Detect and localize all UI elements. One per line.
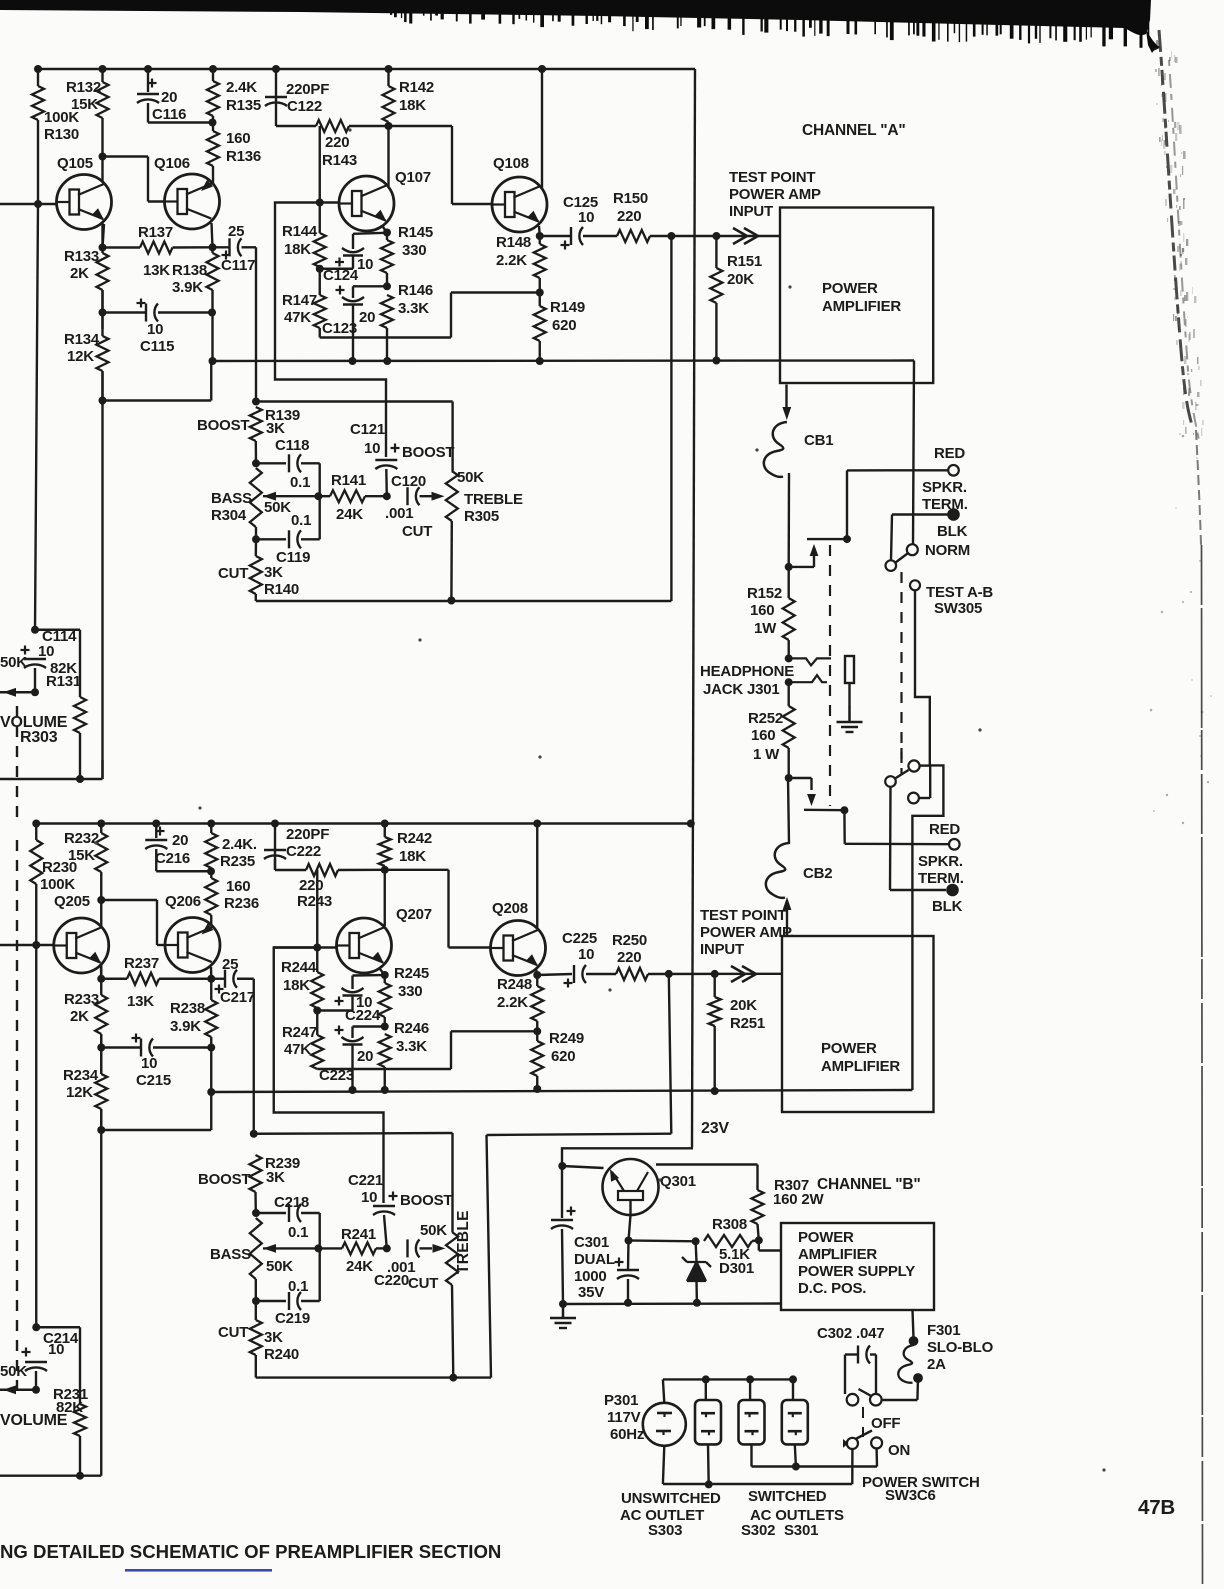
- svg-text:P301: P301: [604, 1392, 638, 1409]
- svg-text:S301: S301: [784, 1522, 818, 1539]
- svg-text:47K: 47K: [284, 1041, 311, 1058]
- svg-text:220PF: 220PF: [286, 81, 329, 98]
- svg-text:50K: 50K: [0, 1363, 27, 1380]
- svg-text:10: 10: [578, 209, 594, 226]
- svg-text:POWER: POWER: [822, 280, 878, 297]
- svg-text:CUT: CUT: [402, 523, 432, 540]
- svg-text:R135: R135: [226, 97, 261, 114]
- svg-text:R140: R140: [264, 581, 299, 598]
- svg-text:CUT: CUT: [218, 565, 248, 582]
- svg-text:0.1: 0.1: [288, 1278, 308, 1295]
- svg-text:10: 10: [364, 440, 380, 457]
- svg-text:330: 330: [398, 983, 422, 1000]
- svg-text:R130: R130: [44, 126, 79, 143]
- svg-text:13K: 13K: [143, 262, 170, 279]
- svg-text:S303: S303: [648, 1522, 682, 1539]
- svg-text:620: 620: [552, 317, 576, 334]
- svg-text:R146: R146: [398, 282, 433, 299]
- svg-text:SW3C6: SW3C6: [885, 1487, 936, 1504]
- svg-text:R236: R236: [224, 895, 259, 912]
- svg-text:220: 220: [325, 134, 349, 151]
- svg-text:R237: R237: [124, 955, 159, 972]
- svg-text:SWITCHED: SWITCHED: [748, 1488, 827, 1505]
- svg-text:Q108: Q108: [493, 155, 529, 172]
- svg-text:R232: R232: [64, 830, 99, 847]
- svg-text:Q205: Q205: [54, 893, 90, 910]
- svg-text:C216: C216: [155, 850, 190, 867]
- svg-text:F301: F301: [927, 1322, 960, 1339]
- svg-text:20: 20: [357, 1048, 373, 1065]
- svg-text:50K: 50K: [264, 499, 291, 516]
- svg-text:TERM.: TERM.: [918, 870, 964, 887]
- svg-text:CHANNEL "B": CHANNEL "B": [817, 1176, 921, 1193]
- svg-text:47K: 47K: [284, 309, 311, 326]
- svg-text:15K: 15K: [68, 847, 95, 864]
- svg-text:ON: ON: [888, 1442, 910, 1459]
- svg-text:D.C. POS.: D.C. POS.: [798, 1280, 866, 1297]
- svg-text:R136: R136: [226, 148, 261, 165]
- svg-text:TEST POINT: TEST POINT: [729, 169, 815, 186]
- svg-text:RED: RED: [929, 821, 960, 838]
- svg-text:160: 160: [751, 727, 775, 744]
- svg-text:R143: R143: [322, 152, 357, 169]
- svg-text:R251: R251: [730, 1015, 765, 1032]
- svg-text:18K: 18K: [399, 848, 426, 865]
- svg-text:C121: C121: [350, 421, 385, 438]
- svg-text:2.4K: 2.4K: [226, 79, 257, 96]
- svg-text:R233: R233: [64, 991, 99, 1008]
- svg-text:3K: 3K: [266, 420, 285, 437]
- svg-text:3K: 3K: [266, 1169, 285, 1186]
- svg-text:R134: R134: [64, 331, 100, 348]
- svg-text:160: 160: [226, 130, 250, 147]
- svg-text:Q207: Q207: [396, 906, 432, 923]
- svg-text:R147: R147: [282, 292, 317, 309]
- svg-text:12K: 12K: [67, 348, 94, 365]
- svg-text:R308: R308: [712, 1216, 747, 1233]
- svg-text:INPUT: INPUT: [729, 203, 773, 220]
- svg-text:POWER: POWER: [821, 1040, 877, 1057]
- svg-text:47B: 47B: [1138, 1496, 1175, 1519]
- svg-text:10: 10: [361, 1189, 377, 1206]
- svg-text:220: 220: [617, 949, 641, 966]
- svg-text:2A: 2A: [927, 1356, 946, 1373]
- svg-text:3.3K: 3.3K: [396, 1038, 427, 1055]
- svg-text:C217: C217: [220, 989, 255, 1006]
- svg-text:CUT: CUT: [408, 1275, 438, 1292]
- svg-text:R141: R141: [331, 472, 366, 489]
- svg-text:3.3K: 3.3K: [398, 300, 429, 317]
- svg-text:R245: R245: [394, 965, 429, 982]
- svg-text:R249: R249: [549, 1030, 584, 1047]
- svg-text:3.9K: 3.9K: [170, 1018, 201, 1035]
- svg-text:160 2W: 160 2W: [773, 1191, 825, 1208]
- svg-text:160: 160: [750, 602, 774, 619]
- svg-text:CB2: CB2: [803, 865, 832, 882]
- svg-text:330: 330: [402, 242, 426, 259]
- svg-text:3K: 3K: [264, 564, 283, 581]
- svg-text:R150: R150: [613, 190, 648, 207]
- svg-text:117V: 117V: [607, 1409, 641, 1426]
- svg-text:1000: 1000: [574, 1268, 607, 1285]
- svg-text:CB1: CB1: [804, 432, 833, 449]
- svg-text:R304: R304: [211, 507, 247, 524]
- svg-text:50K: 50K: [266, 1258, 293, 1275]
- svg-text:220PF: 220PF: [286, 826, 329, 843]
- svg-text:NG DETAILED SCHEMATIC OF PREAM: NG DETAILED SCHEMATIC OF PREAMPLIFIER SE…: [0, 1541, 501, 1562]
- svg-text:20: 20: [161, 89, 177, 106]
- svg-text:R144: R144: [282, 223, 318, 240]
- svg-text:CHANNEL "A": CHANNEL "A": [802, 122, 906, 139]
- svg-text:SLO-BLO: SLO-BLO: [927, 1339, 994, 1356]
- svg-text:R148: R148: [496, 234, 531, 251]
- svg-text:.001: .001: [387, 1259, 415, 1276]
- svg-text:HEADPHONE: HEADPHONE: [700, 663, 794, 680]
- svg-text:R235: R235: [220, 853, 255, 870]
- svg-text:R240: R240: [264, 1346, 299, 1363]
- svg-text:R243: R243: [297, 893, 332, 910]
- svg-text:3.9K: 3.9K: [172, 279, 203, 296]
- svg-text:13K: 13K: [127, 993, 154, 1010]
- svg-text:160: 160: [226, 878, 250, 895]
- svg-text:C120: C120: [391, 473, 426, 490]
- svg-text:R142: R142: [399, 79, 434, 96]
- svg-text:220: 220: [617, 208, 641, 225]
- svg-text:BLK: BLK: [932, 898, 963, 915]
- svg-text:AMPLIFIER: AMPLIFIER: [822, 298, 901, 315]
- svg-text:R250: R250: [612, 932, 647, 949]
- svg-text:220: 220: [299, 877, 323, 894]
- svg-text:2.4K.: 2.4K.: [222, 836, 257, 853]
- svg-text:C117: C117: [221, 257, 255, 274]
- svg-text:SPKR.: SPKR.: [922, 479, 967, 496]
- svg-text:NORM: NORM: [925, 542, 970, 559]
- svg-text:R137: R137: [138, 224, 173, 241]
- svg-text:Q208: Q208: [492, 900, 528, 917]
- svg-text:15K: 15K: [71, 96, 98, 113]
- svg-text:TREBLE: TREBLE: [464, 491, 523, 508]
- svg-text:TERM.: TERM.: [922, 496, 968, 513]
- svg-text:R132: R132: [66, 79, 101, 96]
- svg-text:C118: C118: [275, 437, 309, 454]
- svg-text:CUT: CUT: [218, 1324, 248, 1341]
- svg-text:C218: C218: [274, 1194, 309, 1211]
- svg-text:R305: R305: [464, 508, 499, 525]
- svg-text:AMPLIFIER: AMPLIFIER: [798, 1246, 877, 1263]
- svg-text:2.2K: 2.2K: [497, 994, 528, 1011]
- svg-text:BASS: BASS: [211, 490, 252, 507]
- svg-text:R152: R152: [747, 585, 782, 602]
- svg-text:R246: R246: [394, 1020, 429, 1037]
- svg-text:25: 25: [228, 223, 244, 240]
- svg-text:3K: 3K: [264, 1329, 283, 1346]
- svg-text:D301: D301: [719, 1260, 754, 1277]
- svg-text:20: 20: [172, 832, 188, 849]
- svg-text:BOOST: BOOST: [198, 1171, 250, 1188]
- svg-text:0.1: 0.1: [288, 1224, 308, 1241]
- svg-text:R238: R238: [170, 1000, 205, 1017]
- svg-text:POWER AMP.: POWER AMP.: [700, 924, 794, 941]
- svg-text:50K: 50K: [457, 469, 484, 486]
- svg-text:20K: 20K: [727, 271, 754, 288]
- svg-text:620: 620: [551, 1048, 575, 1065]
- svg-text:AMPLIFIER: AMPLIFIER: [821, 1058, 900, 1075]
- svg-text:C116: C116: [152, 106, 186, 123]
- svg-text:R248: R248: [497, 976, 532, 993]
- svg-text:0.1: 0.1: [290, 474, 310, 491]
- svg-text:24K: 24K: [336, 506, 363, 523]
- svg-text:R131: R131: [46, 673, 81, 690]
- svg-text:C215: C215: [136, 1072, 171, 1089]
- svg-text:SPKR.: SPKR.: [918, 853, 963, 870]
- svg-text:INPUT: INPUT: [700, 941, 744, 958]
- svg-text:POWER AMP: POWER AMP: [729, 186, 821, 203]
- svg-text:18K: 18K: [399, 97, 426, 114]
- svg-text:C115: C115: [140, 338, 174, 355]
- svg-text:UNSWITCHED: UNSWITCHED: [621, 1490, 721, 1507]
- svg-text:R151: R151: [727, 253, 762, 270]
- svg-text:Q106: Q106: [154, 155, 190, 172]
- svg-text:POWER: POWER: [798, 1229, 854, 1246]
- svg-text:BOOST: BOOST: [197, 417, 249, 434]
- svg-text:C221: C221: [348, 1172, 383, 1189]
- svg-text:2.2K: 2.2K: [496, 252, 527, 269]
- svg-text:OFF: OFF: [871, 1415, 900, 1432]
- svg-text:10: 10: [578, 946, 594, 963]
- svg-text:25: 25: [222, 956, 238, 973]
- svg-text:10: 10: [38, 643, 54, 660]
- svg-text:R138: R138: [172, 262, 207, 279]
- svg-text:R252: R252: [748, 710, 783, 727]
- svg-text:50K: 50K: [420, 1222, 447, 1239]
- svg-text:C222: C222: [286, 843, 321, 860]
- svg-text:20K: 20K: [730, 997, 757, 1014]
- svg-text:Q107: Q107: [395, 169, 431, 186]
- svg-text:R247: R247: [282, 1024, 317, 1041]
- svg-text:R133: R133: [64, 248, 99, 265]
- svg-text:BASS: BASS: [210, 1246, 251, 1263]
- svg-text:R234: R234: [63, 1067, 99, 1084]
- svg-text:BLK: BLK: [937, 523, 968, 540]
- svg-text:60Hz: 60Hz: [610, 1426, 644, 1443]
- svg-text:23V: 23V: [701, 1120, 729, 1137]
- svg-text:20: 20: [359, 309, 375, 326]
- svg-text:1 W: 1 W: [753, 746, 780, 763]
- svg-text:C301: C301: [574, 1234, 609, 1251]
- svg-text:C225: C225: [562, 930, 597, 947]
- svg-text:JACK J301: JACK J301: [703, 681, 780, 698]
- svg-text:100K: 100K: [40, 876, 75, 893]
- svg-text:R303: R303: [20, 729, 58, 746]
- svg-text:RED: RED: [934, 445, 965, 462]
- svg-text:10: 10: [141, 1055, 157, 1072]
- svg-text:TREBLE: TREBLE: [455, 1210, 472, 1274]
- svg-text:C302 .047: C302 .047: [817, 1325, 884, 1342]
- svg-text:S302: S302: [741, 1522, 775, 1539]
- svg-text:C219: C219: [275, 1310, 310, 1327]
- svg-text:1W: 1W: [754, 620, 777, 637]
- svg-text:R241: R241: [341, 1226, 376, 1243]
- svg-text:10: 10: [48, 1341, 64, 1358]
- svg-text:R149: R149: [550, 299, 585, 316]
- svg-text:12K: 12K: [66, 1084, 93, 1101]
- svg-text:R145: R145: [398, 224, 433, 241]
- svg-text:BOOST: BOOST: [402, 444, 454, 461]
- svg-text:2K: 2K: [70, 265, 89, 282]
- svg-text:Q206: Q206: [165, 893, 201, 910]
- svg-text:BOOST: BOOST: [400, 1192, 452, 1209]
- svg-text:24K: 24K: [346, 1258, 373, 1275]
- svg-text:R244: R244: [281, 959, 317, 976]
- svg-text:TEST A-B: TEST A-B: [926, 584, 993, 601]
- svg-text:50K: 50K: [0, 654, 27, 671]
- svg-text:C122: C122: [287, 98, 322, 115]
- svg-text:10: 10: [357, 256, 373, 273]
- svg-text:R242: R242: [397, 830, 432, 847]
- svg-text:.001: .001: [385, 505, 413, 522]
- svg-text:VOLUME: VOLUME: [0, 1412, 68, 1429]
- svg-text:SW305: SW305: [934, 600, 982, 617]
- svg-text:Q105: Q105: [57, 155, 93, 172]
- svg-text:35V: 35V: [578, 1284, 604, 1301]
- svg-text:2K: 2K: [70, 1008, 89, 1025]
- svg-text:DUAL: DUAL: [574, 1251, 615, 1268]
- svg-text:0.1: 0.1: [291, 512, 311, 529]
- svg-text:10: 10: [147, 321, 163, 338]
- svg-text:TEST POINT: TEST POINT: [700, 907, 786, 924]
- svg-text:Q301: Q301: [660, 1173, 696, 1190]
- svg-text:POWER SUPPLY: POWER SUPPLY: [798, 1263, 915, 1280]
- svg-text:18K: 18K: [284, 241, 311, 258]
- svg-text:18K: 18K: [283, 977, 310, 994]
